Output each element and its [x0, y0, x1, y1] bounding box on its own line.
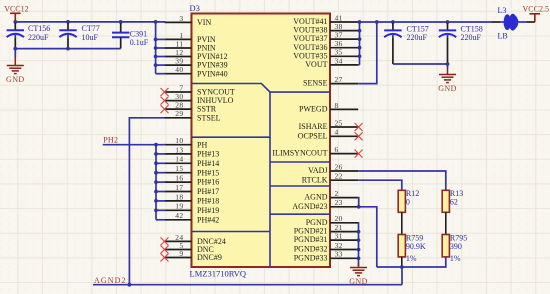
- junction PVIN bus: [154, 63, 158, 67]
- wire PH bus stub: [156, 162, 166, 164]
- wire RTCLK pin22 to R12 top: [358, 180, 402, 190]
- svg-text:25: 25: [335, 118, 343, 127]
- junction at PVIN bus: [154, 20, 158, 24]
- capacitor CT156: [7, 23, 51, 49]
- wire resistor bottom rail: [377, 257, 446, 267]
- svg-text:14: 14: [175, 155, 183, 164]
- wire PVIN bus vertical: [155, 22, 157, 74]
- pin 9 DNC#9: [161, 249, 222, 262]
- wire SENSE up to VOUT rail: [358, 22, 377, 84]
- svg-text:LB: LB: [498, 31, 508, 40]
- svg-text:8: 8: [335, 101, 339, 110]
- svg-text:PH#15: PH#15: [197, 168, 219, 177]
- svg-text:STSEL: STSEL: [197, 113, 221, 122]
- IC D3 LMZ31710RVQ body: [192, 14, 331, 268]
- wire R12 to R759: [401, 212, 403, 234]
- junction PH bus: [154, 190, 158, 194]
- svg-text:1%: 1%: [450, 254, 461, 263]
- wire VOUT bus stub: [358, 38, 359, 40]
- svg-text:ILIMSYNCOUT: ILIMSYNCOUT: [272, 149, 327, 158]
- pin 32 PGND#32: [294, 241, 358, 254]
- svg-text:SSTR: SSTR: [197, 105, 217, 114]
- svg-text:28: 28: [175, 101, 183, 110]
- svg-text:20: 20: [335, 214, 343, 223]
- svg-text:VCC12: VCC12: [4, 5, 28, 14]
- wire PH bus stub: [156, 172, 166, 174]
- IC internal divider - vertical: [269, 92, 271, 267]
- svg-text:22: 22: [335, 172, 343, 181]
- junction PH bus: [154, 171, 158, 175]
- svg-text:OCPSEL: OCPSEL: [298, 131, 328, 140]
- svg-text:0: 0: [406, 198, 410, 207]
- wire PVIN bus stub: [156, 38, 166, 40]
- svg-text:62: 62: [450, 198, 458, 207]
- wire VOUT bus stub: [358, 64, 359, 66]
- svg-text:DNC#9: DNC#9: [197, 253, 222, 262]
- svg-text:SENSE: SENSE: [303, 79, 328, 88]
- capacitor CT157: [384, 23, 429, 64]
- IC internal divider - right PGND section top: [270, 213, 330, 215]
- pin 22 RTCLK: [302, 172, 358, 185]
- svg-text:220uF: 220uF: [407, 33, 428, 42]
- pin 1 PVIN: [165, 31, 216, 44]
- wire VADJ pin26 to R13 top: [358, 171, 446, 190]
- junction GND stem: [13, 47, 17, 51]
- svg-text:3: 3: [179, 14, 183, 23]
- junction PH bus: [154, 199, 158, 203]
- wire PH bus stub: [156, 153, 166, 155]
- svg-text:AGND: AGND: [304, 193, 327, 202]
- svg-text:AGND#23: AGND#23: [292, 202, 327, 211]
- svg-text:34: 34: [335, 56, 343, 65]
- junction sense vertical top: [375, 20, 379, 24]
- svg-text:VOUT: VOUT: [305, 60, 327, 69]
- junction VOUT bus top: [358, 20, 362, 24]
- pin 18 PH#18: [165, 192, 220, 205]
- pin 2 AGND: [304, 189, 358, 202]
- junction PH bus: [154, 152, 158, 156]
- junction R759 bottom: [400, 265, 404, 269]
- svg-text:23: 23: [335, 198, 343, 207]
- wire L3 to VCC2.5: [526, 21, 534, 23]
- pin 21 PGND#21: [294, 223, 358, 236]
- wire GND stem left: [14, 49, 16, 58]
- svg-text:32: 32: [335, 241, 343, 250]
- wire GND stem mid: [447, 64, 449, 69]
- wire PVIN bus stub: [156, 56, 166, 58]
- junction AGND2 and STSEL drop: [127, 283, 131, 287]
- svg-text:PH: PH: [197, 140, 207, 149]
- junction PVIN bus: [154, 38, 158, 42]
- pin 23 AGND#23: [292, 198, 358, 211]
- wire PVIN bus stub: [156, 73, 166, 75]
- svg-text:2: 2: [335, 189, 339, 198]
- wire PH bus stub: [156, 200, 166, 202]
- capacitor C391: [112, 23, 149, 49]
- wire CT157 CT158 ground rail: [393, 63, 448, 65]
- wire PVIN bus stub: [156, 64, 166, 66]
- resistor R12: [398, 189, 419, 212]
- svg-text:PH#13: PH#13: [197, 150, 219, 159]
- svg-text:220uF: 220uF: [28, 33, 49, 42]
- pin 6 ILIMSYNCOUT: [272, 145, 362, 158]
- svg-text:15: 15: [175, 164, 183, 173]
- pin 16 PH#16: [165, 174, 220, 187]
- pin 26 VADJ: [308, 162, 358, 175]
- wire AGND#23 down to divider rail: [359, 207, 377, 267]
- junction PVIN bus: [154, 55, 158, 59]
- wire VOUT bus stub: [358, 47, 359, 49]
- pin 4 OCPSEL: [298, 128, 363, 141]
- pin 5 DNC: [161, 241, 214, 254]
- pin 7 SYNCOUT: [161, 83, 235, 96]
- svg-text:13: 13: [175, 145, 183, 154]
- pin 40 PVIN#40: [165, 65, 228, 78]
- capacitor CT77: [59, 23, 99, 49]
- svg-text:ISHARE: ISHARE: [299, 122, 328, 131]
- pin 39 PVIN#39: [165, 57, 228, 70]
- svg-text:220uF: 220uF: [461, 33, 482, 42]
- pin 13 PH#13: [165, 145, 220, 158]
- svg-text:VCC2.5: VCC2.5: [523, 4, 549, 13]
- svg-text:D3: D3: [190, 3, 200, 13]
- svg-text:PGND#33: PGND#33: [294, 253, 328, 262]
- IC internal divider - left PH section top: [192, 136, 271, 138]
- resistor R759: [398, 233, 426, 263]
- svg-text:0.1uF: 0.1uF: [130, 38, 149, 47]
- junction CT157 top: [391, 20, 395, 24]
- svg-text:PWEGD: PWEGD: [299, 105, 328, 114]
- wire R759 bottom lead: [401, 257, 403, 267]
- svg-text:PGND: PGND: [306, 218, 328, 227]
- pin 14 PH#14: [165, 155, 220, 168]
- pin 11 PNIN: [165, 39, 216, 52]
- svg-text:PH#18: PH#18: [197, 197, 219, 206]
- svg-text:RTCLK: RTCLK: [302, 175, 328, 184]
- IC internal divider - top section step: [192, 84, 331, 93]
- svg-text:PH#14: PH#14: [197, 159, 219, 168]
- pin 33 PGND#33: [294, 250, 358, 263]
- inductor L3: [492, 6, 527, 41]
- pin 31 PGND#31: [294, 232, 358, 245]
- svg-text:PH#42: PH#42: [197, 215, 219, 224]
- power port VCC2.5: [523, 4, 549, 22]
- svg-text:90.9K: 90.9K: [406, 242, 426, 251]
- IC internal divider - right VADJ section top: [270, 161, 330, 163]
- pin 27 SENSE: [303, 75, 358, 88]
- resistor R795: [442, 233, 467, 263]
- svg-text:PH2: PH2: [103, 136, 118, 145]
- pin 25 ISHARE: [299, 118, 363, 131]
- svg-text:AGND2: AGND2: [94, 276, 127, 285]
- wire PVIN bus stub: [156, 47, 166, 49]
- wire STSEL pin 29 to vertical drop: [129, 118, 164, 285]
- svg-text:L3: L3: [498, 6, 507, 15]
- svg-text:VADJ: VADJ: [308, 166, 327, 175]
- wire PH2 to pin 10 PH: [103, 144, 166, 146]
- wire PGND GND stem: [358, 258, 360, 266]
- junction PH bus: [154, 161, 158, 165]
- junction AGND pins: [357, 205, 361, 209]
- pin 35 VOUT#35: [293, 48, 358, 61]
- svg-text:31: 31: [335, 232, 343, 241]
- wire PH bus vertical: [155, 145, 157, 220]
- pin 36 VOUT#36: [293, 39, 358, 52]
- svg-text:GND: GND: [349, 277, 368, 286]
- svg-text:VIN: VIN: [197, 18, 211, 27]
- svg-text:LMZ31710RVQ: LMZ31710RVQ: [190, 269, 246, 279]
- svg-text:390: 390: [450, 242, 462, 251]
- junction PVIN bus: [154, 46, 158, 50]
- wire PH bus stub: [156, 191, 166, 193]
- svg-text:PGND#32: PGND#32: [294, 245, 328, 254]
- wire VOUT rail from pin 41: [358, 21, 491, 23]
- svg-text:19: 19: [175, 202, 183, 211]
- svg-text:PGND#31: PGND#31: [294, 235, 328, 244]
- svg-text:1%: 1%: [406, 254, 417, 263]
- svg-text:GND: GND: [6, 75, 25, 84]
- svg-text:9: 9: [179, 249, 183, 258]
- junction PGND bus: [357, 238, 361, 242]
- pin 30 INHUVLO: [161, 92, 234, 105]
- wire AGND2 rail: [93, 284, 402, 286]
- pin 20 PGND: [306, 214, 358, 227]
- svg-text:33: 33: [335, 250, 343, 259]
- wire PH bus stub: [156, 209, 166, 211]
- junction PGND bus: [357, 248, 361, 252]
- pin 38 VOUT#38: [293, 22, 358, 35]
- pin 28 SSTR: [161, 101, 217, 114]
- junction at VCC12 stem: [13, 20, 17, 24]
- svg-text:PH#17: PH#17: [197, 187, 219, 196]
- pin 41 VOUT#41: [293, 13, 358, 26]
- pin 3 VIN: [165, 14, 212, 27]
- ground GND left: [7, 58, 24, 74]
- junction PH bus: [154, 208, 158, 212]
- pin 12 PVIN#12: [165, 48, 228, 61]
- wire R13 to R795: [445, 212, 447, 234]
- wire AGND2 rail riser: [401, 267, 403, 285]
- junction PGND bus: [357, 230, 361, 234]
- ground GND under CT158: [439, 69, 456, 83]
- pin 15 PH#15: [165, 164, 220, 177]
- wire capacitor ground rail: [15, 48, 120, 50]
- svg-text:16: 16: [175, 174, 183, 183]
- pin 8 PWEGD: [299, 101, 358, 114]
- junction VOUT bus: [358, 54, 362, 58]
- wire VCC12 rail to pin 3 VIN: [15, 21, 165, 23]
- junction CT158 bottom GND: [446, 62, 450, 66]
- IC internal divider - right AGND section top: [270, 185, 330, 187]
- junction CT158 top: [446, 20, 450, 24]
- junction VOUT bus: [358, 37, 362, 41]
- wire PH bus stub: [156, 181, 166, 183]
- wire VOUT bus vertical: [359, 22, 361, 65]
- pin 24 DNC#24: [161, 233, 226, 246]
- capacitor CT158: [439, 23, 483, 64]
- pin 17 PH#17: [165, 183, 220, 196]
- wire VOUT bus stub: [358, 30, 359, 32]
- junction PH bus top: [154, 143, 158, 147]
- wire PH bus stub: [156, 219, 166, 221]
- wire VOUT bus stub: [358, 55, 359, 57]
- svg-text:PH#19: PH#19: [197, 206, 219, 215]
- svg-text:40: 40: [175, 65, 183, 74]
- pin 29 STSEL: [165, 109, 221, 122]
- pin 42 PH#42: [165, 211, 220, 224]
- svg-text:GND: GND: [438, 84, 457, 93]
- svg-text:17: 17: [175, 183, 183, 192]
- junction VOUT bus: [358, 29, 362, 33]
- svg-text:10: 10: [175, 136, 183, 145]
- junction CT77 bottom: [66, 47, 70, 51]
- resistor R13: [442, 189, 463, 212]
- wire AGND pin2 down to pin23: [357, 198, 360, 207]
- svg-text:27: 27: [335, 75, 343, 84]
- junction PH bus: [154, 180, 158, 184]
- pin 37 VOUT#37: [293, 31, 358, 44]
- ground GND under IC: [350, 263, 367, 276]
- junction VOUT bus: [358, 46, 362, 50]
- svg-text:42: 42: [175, 211, 183, 220]
- svg-text:PVIN#40: PVIN#40: [197, 69, 228, 78]
- svg-text:PH#16: PH#16: [197, 178, 219, 187]
- svg-text:10uF: 10uF: [82, 33, 99, 42]
- pin 34 VOUT: [305, 56, 358, 69]
- power port VCC12: [4, 5, 28, 22]
- IC internal divider - left DNC section top: [192, 231, 271, 233]
- junction at C391 top: [119, 20, 123, 24]
- wire PGND bus vertical: [357, 223, 359, 258]
- junction at CT77 top: [66, 20, 70, 24]
- svg-text:29: 29: [175, 109, 183, 118]
- pin 19 PH#19: [165, 202, 220, 215]
- svg-text:26: 26: [335, 162, 343, 171]
- junction PGND pin33 GND stem: [357, 256, 361, 260]
- svg-text:4: 4: [335, 128, 339, 137]
- svg-text:6: 6: [335, 145, 339, 154]
- svg-text:18: 18: [175, 192, 183, 201]
- pin 10 PH: [165, 136, 208, 149]
